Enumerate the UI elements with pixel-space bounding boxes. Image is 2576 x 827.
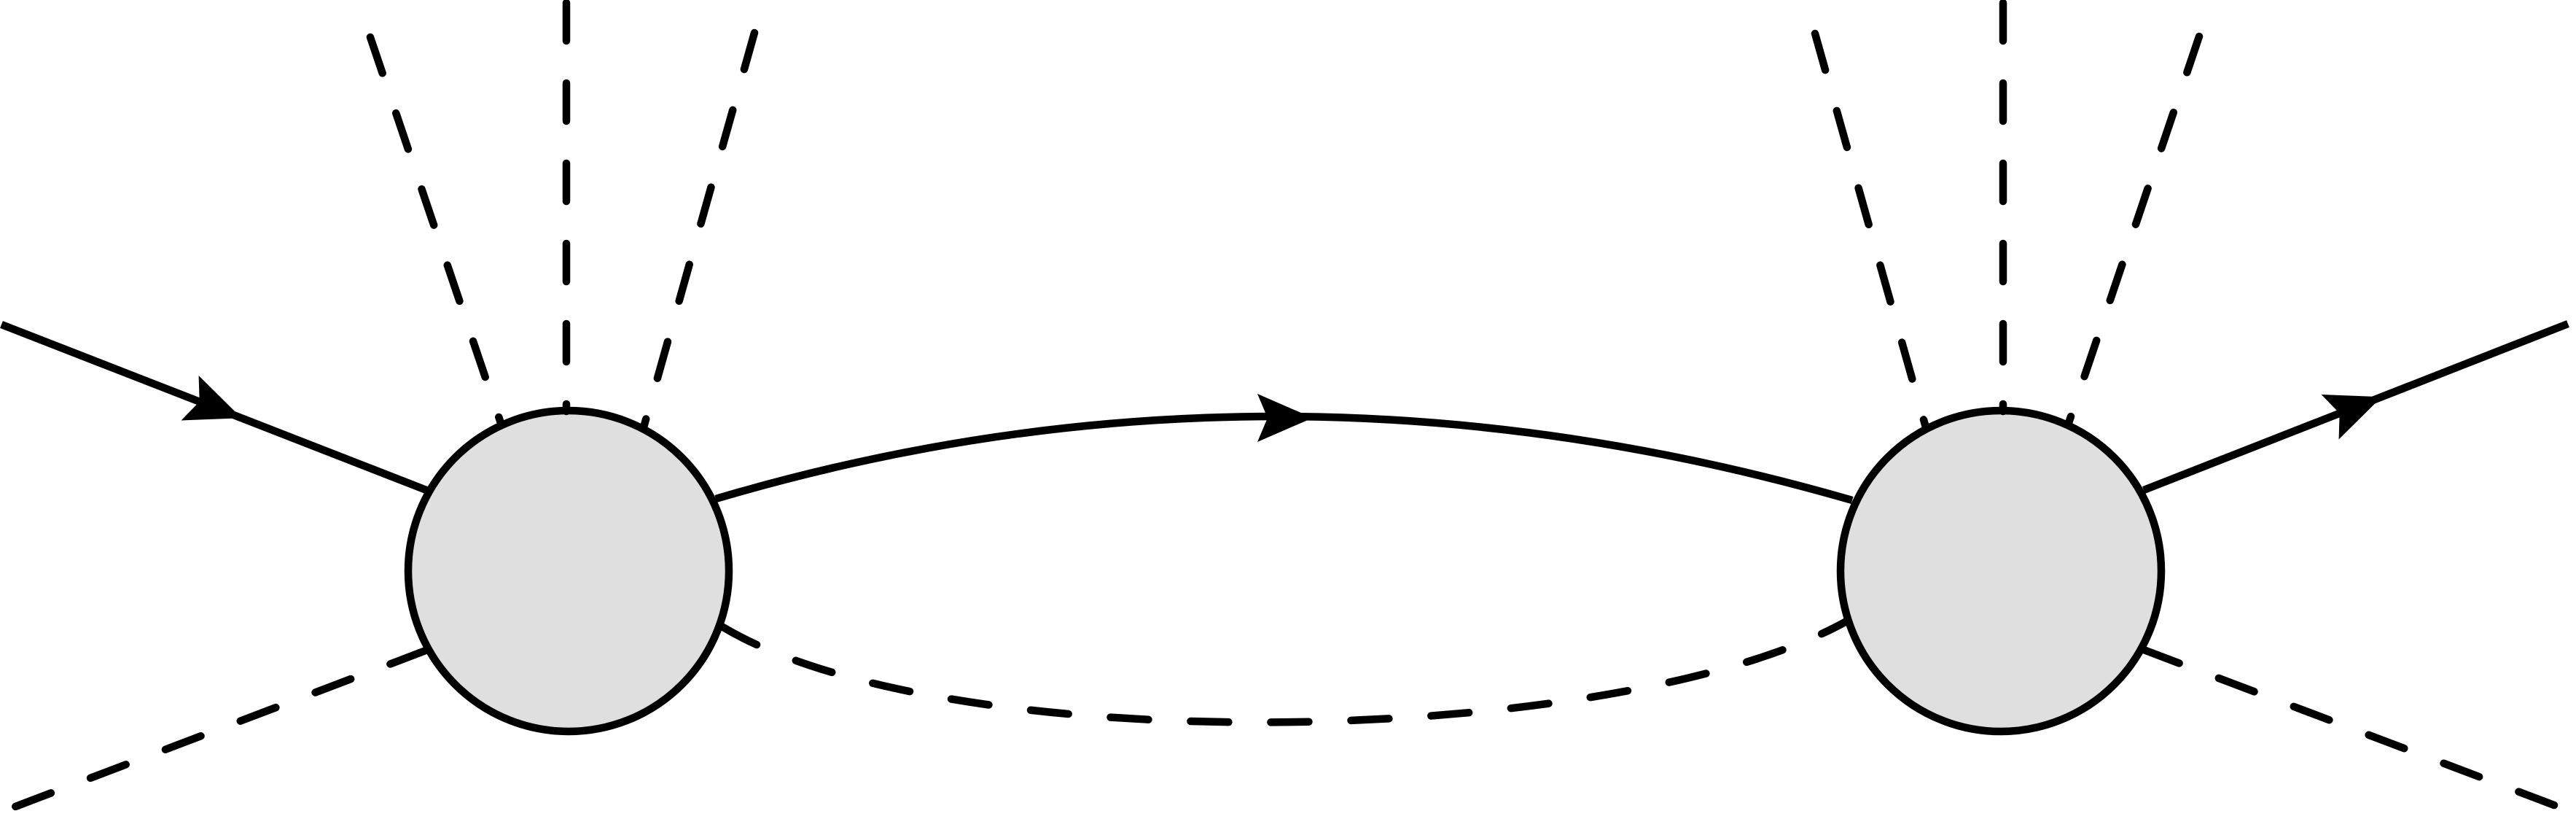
wire: right blob dashed leg, upper-right xyxy=(2069,36,2199,423)
wire: outgoing solid fermion line (top-right external leg) xyxy=(2144,324,2568,490)
wire: internal solid fermion arc (top) between blobs xyxy=(716,416,1852,500)
blob U1 (left grey vertex circle) xyxy=(408,411,729,731)
arrow on outgoing fermion line xyxy=(2322,374,2391,439)
wire: left blob dashed leg, upper-right xyxy=(644,33,754,427)
arrow on internal fermion arc xyxy=(1257,394,1313,442)
wire: incoming solid fermion line (top-left external leg) xyxy=(1,325,430,492)
wire: right blob dashed leg, vertical xyxy=(1999,3,2007,411)
wire: right blob dashed leg, lower-right xyxy=(2144,650,2575,813)
wire: left blob dashed leg, vertical xyxy=(563,3,571,411)
arrow on incoming fermion line xyxy=(182,376,251,440)
wire: left blob dashed leg, lower-left xyxy=(0,651,426,812)
blob U2 (right grey vertex circle) xyxy=(1841,411,2161,731)
wire: right blob dashed leg, upper-left xyxy=(1815,34,1926,427)
wire: internal dashed scalar arc (bottom) between blobs xyxy=(723,621,1846,722)
wire: left blob dashed leg, upper-left xyxy=(370,37,501,423)
